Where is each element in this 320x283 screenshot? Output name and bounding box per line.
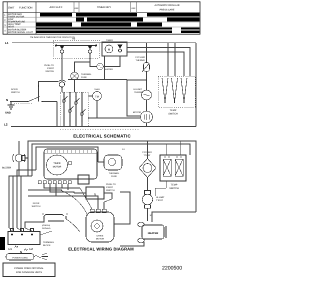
thermal fuse wiring [104, 155, 122, 170]
svg-text:1: 1 [94, 193, 96, 197]
svg-text:TEMPERATURE: TEMPERATURE [8, 21, 26, 24]
wire feeder b [174, 43, 176, 76]
svg-text:DOOR: DOOR [11, 88, 18, 91]
svg-text:TIMER: TIMER [94, 88, 100, 91]
row line 3 [3, 26, 200, 28]
wire feeder a [167, 43, 169, 76]
svg-text:SWITCH: SWITCH [168, 113, 178, 116]
wire wd rail 2 [32, 144, 190, 176]
svg-text:ELECTRICAL WIRING DIAGRAM: ELECTRICAL WIRING DIAGRAM [68, 247, 134, 252]
temp switch wiring [160, 155, 186, 181]
svg-text:MOTOR SIGNAL LIGHT: MOTOR SIGNAL LIGHT [8, 31, 33, 34]
table column line 2 [35, 2, 37, 34]
buzzer schematic [90, 62, 97, 67]
thermal fuse F1 [75, 53, 91, 72]
cam switch 2 [88, 46, 92, 54]
push-to-start switch S1 [39, 80, 67, 102]
cycling tstat wiring [142, 151, 152, 157]
svg-text:DOOR: DOOR [33, 202, 40, 205]
drive motor [86, 212, 114, 242]
svg-text:ELECTRICAL SCHEMATIC: ELECTRICAL SCHEMATIC [73, 134, 131, 139]
wire bottom rail [11, 126, 196, 128]
off column divider b [78, 2, 80, 13]
svg-text:MOTOR: MOTOR [96, 238, 105, 241]
wire frame left [68, 80, 147, 119]
header bottom line [3, 11, 200, 13]
timer motor box U1 [102, 42, 127, 56]
cam bar row 1 [36, 13, 200, 33]
cam bar row 4a [36, 27, 172, 29]
svg-text:POWER CORD OPTIONAL: POWER CORD OPTIONAL [14, 267, 44, 270]
svg-text:MOTOR: MOTOR [53, 166, 62, 169]
wire top rail [12, 43, 196, 76]
svg-text:SWITCH: SWITCH [45, 70, 54, 73]
power cord plug [0, 237, 5, 250]
wire cam1 down [61, 53, 63, 80]
svg-text:HI-LIMIT: HI-LIMIT [133, 88, 142, 91]
cycling thermostat TH1 [146, 43, 148, 62]
wire box2 drop [104, 56, 106, 80]
harness wires [28, 184, 130, 224]
row line 1 [3, 16, 200, 18]
svg-text:SWIT: SWIT [8, 7, 15, 10]
svg-text:SWITCH: SWITCH [11, 91, 20, 94]
svg-text:CYCLING: CYCLING [135, 56, 145, 59]
cam switch 3 [118, 45, 122, 52]
push-to-start wiring [86, 187, 104, 199]
svg-text:FUSE: FUSE [81, 76, 87, 79]
door switch wiring [32, 202, 41, 208]
svg-text:HEAT: HEAT [8, 25, 15, 28]
temp switch dashed box [158, 76, 195, 107]
cam bar row 2 [76, 18, 84, 22]
timer motor circle [47, 155, 68, 175]
timer motor circle TM [93, 92, 102, 101]
svg-text:CYCLING: CYCLING [142, 151, 152, 154]
wire wd rail 1 [28, 141, 196, 212]
table header text [8, 4, 180, 12]
svg-text:TM: TM [95, 95, 99, 98]
svg-text:FUSE: FUSE [111, 175, 117, 178]
svg-text:START: START [106, 186, 114, 189]
svg-text:AUTOMATIC REGULAR: AUTOMATIC REGULAR [154, 4, 179, 7]
svg-text:T'STAT: T'STAT [156, 199, 164, 202]
svg-text:BUZZER: BUZZER [2, 167, 12, 170]
wire nested rail 2 [127, 48, 190, 77]
lower timer dashed box [60, 92, 88, 126]
svg-text:BLOCK: BLOCK [43, 244, 51, 247]
svg-text:PRESS CARE: PRESS CARE [160, 9, 175, 12]
timer block [44, 149, 97, 179]
svg-text:THERMAL: THERMAL [81, 73, 92, 76]
svg-text:THERM: THERM [134, 91, 142, 94]
timer motor circle [105, 45, 113, 53]
ground dashed line [60, 129, 140, 131]
svg-text:PUSH-TO: PUSH-TO [106, 183, 116, 186]
svg-text:(GREEN): (GREEN) [42, 224, 50, 227]
svg-text:TIMER MOTOR: TIMER MOTOR [8, 16, 25, 19]
svg-text:FOR CANADIAN UNITS: FOR CANADIAN UNITS [16, 271, 42, 274]
svg-text:FUNCTION: FUNCTION [19, 7, 33, 10]
temp switch contacts [162, 78, 187, 102]
timer chart table frame [3, 2, 200, 34]
timer rail [56, 45, 96, 47]
timer dashed box [53, 40, 99, 58]
cam bar row 3 [36, 23, 72, 27]
power cord label box [6, 254, 34, 261]
svg-text:POWER CORD: POWER CORD [12, 256, 28, 259]
svg-text:TM: TM [72, 38, 75, 41]
junction dot [146, 79, 148, 81]
svg-text:SWITCH: SWITCH [32, 205, 41, 208]
svg-text:2200500: 2200500 [162, 265, 182, 271]
svg-text:HEATER: HEATER [148, 232, 159, 235]
svg-text:TIMED DRY: TIMED DRY [97, 6, 111, 9]
svg-text:AIR FLUFF: AIR FLUFF [49, 6, 63, 9]
svg-text:TERMINAL: TERMINAL [43, 241, 55, 244]
cam switch 1 [55, 45, 96, 53]
svg-text:L2: L2 [30, 247, 34, 251]
timer sub box [78, 175, 89, 184]
svg-text:L1: L1 [5, 41, 9, 45]
svg-text:TM INDICATES TIMER MOTOR CIRCU: TM INDICATES TIMER MOTOR CIRCUIT ON [30, 36, 75, 39]
wire nested rail 3 [127, 52, 184, 76]
off column divider c [130, 2, 132, 13]
wire wd rail 3 [36, 147, 98, 170]
svg-text:TIMER: TIMER [106, 39, 113, 42]
push-to-start label [44, 64, 54, 73]
wire temp box to rail [195, 76, 197, 127]
svg-text:MOTOR BUZZER: MOTOR BUZZER [8, 28, 27, 31]
svg-text:BUZZER: BUZZER [105, 68, 114, 71]
svg-text:HI-LIMIT: HI-LIMIT [156, 196, 165, 199]
svg-text:PUSH-TO: PUSH-TO [44, 64, 54, 67]
svg-text:GND: GND [5, 112, 11, 115]
svg-text:START: START [47, 67, 55, 70]
timer terminal strip below block [38, 181, 71, 184]
svg-text:GROUND: GROUND [42, 227, 51, 230]
table row labels [4, 13, 33, 34]
svg-text:MOTOR: MOTOR [133, 111, 142, 114]
off column divider d [136, 2, 138, 13]
ground [8, 102, 15, 110]
svg-text:SWITCH: SWITCH [169, 187, 179, 190]
svg-text:THERMO: THERMO [136, 59, 146, 62]
off column divider a [73, 2, 75, 13]
svg-text:SWITCH: SWITCH [106, 189, 115, 192]
svg-text:N: N [6, 98, 8, 102]
row line 2 [3, 21, 200, 23]
timer terminal strip [47, 150, 91, 153]
svg-text:L1: L1 [9, 247, 13, 251]
svg-text:THERMAL: THERMAL [109, 172, 120, 175]
table column line 1 [6, 2, 8, 34]
hi-limit tstat wiring [142, 191, 152, 209]
wire right rail down [195, 43, 197, 76]
heater [138, 222, 166, 242]
door switch schematic [11, 88, 20, 94]
cam bar row 4b [36, 30, 172, 32]
hi-limit thermostat TH2 [133, 88, 142, 94]
canadian note box [3, 263, 55, 277]
left wire bundle [9, 170, 36, 231]
svg-text:DRIVE: DRIVE [97, 235, 104, 238]
svg-text:L2: L2 [4, 123, 8, 127]
svg-text:TIMER: TIMER [53, 162, 60, 165]
terminal block [8, 232, 40, 245]
